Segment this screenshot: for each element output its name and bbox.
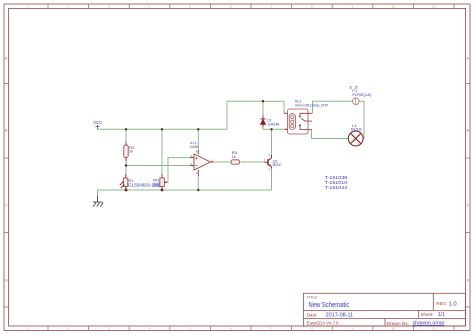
svg-text:1k: 1k bbox=[129, 150, 133, 154]
relay RL1 contact pins bbox=[299, 116, 301, 127]
svg-text:1k: 1k bbox=[232, 155, 236, 159]
wire R1 to ground rail bbox=[125, 188, 127, 191]
svg-text:New Schematic: New Schematic bbox=[309, 300, 350, 309]
wire Q1 emitter to ground rail bbox=[271, 168, 273, 191]
wire D1 anode to relay coil pin 2 bbox=[263, 125, 288, 129]
svg-text:EasyEDA V4.7.8: EasyEDA V4.7.8 bbox=[307, 320, 340, 325]
op-amp U1 input polarity marks bbox=[195, 157, 197, 165]
border column ticks bottom bbox=[48, 326, 454, 331]
svg-text:Sheet:: Sheet: bbox=[421, 312, 434, 317]
title block outline bbox=[303, 293, 465, 326]
svg-text:BC547: BC547 bbox=[273, 163, 282, 167]
wire VCC to R2 bbox=[125, 129, 127, 144]
junction ground/R1 bbox=[125, 189, 128, 192]
fuse F1 bbox=[353, 98, 360, 105]
border row ticks left bbox=[4, 84, 9, 308]
wire relay NO contact to bulb left bbox=[312, 130, 349, 139]
relay RL1 contact structure bbox=[300, 113, 312, 129]
svg-text:10: 10 bbox=[391, 327, 395, 331]
svg-text:PR1: PR1 bbox=[153, 178, 160, 182]
junction R2/R1/op-amp in- bbox=[125, 164, 127, 166]
svg-text:BULB: BULB bbox=[351, 127, 362, 132]
svg-text:FUSE(1A): FUSE(1A) bbox=[352, 93, 372, 97]
VCC net flag bbox=[95, 125, 99, 130]
wire VCC horizontal rail bbox=[98, 128, 228, 130]
potentiometer PR1 wiper arrowhead bbox=[165, 181, 167, 183]
photoresistor R1 bbox=[120, 174, 128, 190]
wire top rail to D1 cathode bbox=[262, 101, 264, 115]
value highlight blue blob bbox=[153, 183, 162, 188]
junction D1 anode/Q1 collector bbox=[270, 128, 272, 130]
junction ground/PR1 bbox=[161, 189, 164, 192]
photoresistor R1 arrowheads bbox=[122, 181, 125, 186]
junction ground/op-amp V- bbox=[197, 189, 199, 191]
wire PR1 wiper to op-amp non-inverting input bbox=[167, 158, 194, 183]
junction top rail/D1 bbox=[262, 100, 264, 102]
transistor Q1 pin numbers bbox=[264, 153, 271, 171]
wire ground rail bbox=[98, 190, 272, 202]
border row ticks right bbox=[466, 84, 471, 308]
svg-text:1.0: 1.0 bbox=[449, 301, 457, 307]
op-amp U1 pin stubs bbox=[191, 150, 214, 176]
border column ticks top bbox=[48, 4, 454, 9]
junction VCC/PR1 bbox=[161, 128, 163, 130]
svg-text:10: 10 bbox=[391, 5, 395, 9]
svg-text:11: 11 bbox=[432, 5, 435, 9]
wire VCC to op-amp V+ bbox=[197, 129, 199, 150]
wire R2 to R1 bbox=[125, 159, 127, 178]
svg-text:1/1: 1/1 bbox=[438, 312, 445, 318]
svg-text:TITLE:: TITLE: bbox=[307, 295, 319, 299]
svg-text:Omron-G5LE Relay_SPDT: Omron-G5LE Relay_SPDT bbox=[295, 102, 329, 107]
wire VCC rail riser and top rail bbox=[227, 101, 284, 129]
bulb L1 bbox=[348, 131, 363, 146]
wire collector node riser to Q1 bbox=[271, 129, 273, 155]
svg-text:1N4148: 1N4148 bbox=[267, 122, 280, 127]
wire fuse to bulb right bbox=[359, 101, 364, 138]
transistor Q1 bbox=[265, 155, 272, 169]
svg-text:2017-08-11: 2017-08-11 bbox=[326, 313, 354, 319]
diode D1 bbox=[260, 116, 265, 128]
potentiometer PR1 bbox=[160, 174, 167, 190]
wire PR1 bottom to ground rail bbox=[161, 188, 163, 191]
resistor R2 bbox=[124, 142, 128, 162]
svg-text:Date:: Date: bbox=[307, 312, 318, 317]
op-amp U1 bbox=[194, 154, 211, 170]
relay RL1 coil pin stubs bbox=[284, 113, 288, 129]
wire op-amp output to R3 bbox=[213, 161, 231, 163]
border row letters bbox=[5, 57, 470, 283]
wire top rail to relay coil pin 1 bbox=[283, 101, 285, 113]
svg-text:11: 11 bbox=[432, 327, 435, 331]
title block shawon.omar underline bbox=[413, 324, 445, 326]
wire relay common to fuse bbox=[313, 101, 353, 113]
relay RL1 body bbox=[288, 109, 309, 134]
svg-text:Drawn By:: Drawn By: bbox=[387, 321, 410, 326]
junction VCC/R2 bbox=[125, 128, 127, 130]
svg-text:LM358: LM358 bbox=[190, 144, 199, 149]
wire R3 to Q1 base bbox=[241, 161, 265, 163]
transistor Q1 emitter arrowhead bbox=[269, 164, 271, 166]
svg-text:VCC: VCC bbox=[93, 120, 102, 125]
ground symbol bbox=[93, 196, 103, 207]
svg-text:T-151044: T-151044 bbox=[325, 185, 348, 191]
wire divider node to op-amp inverting input bbox=[126, 165, 193, 167]
op-amp pin numbers bbox=[190, 150, 214, 176]
wire op-amp V- to ground rail bbox=[197, 176, 199, 190]
wire VCC to PR1 top bbox=[161, 129, 163, 177]
svg-text:REV:: REV: bbox=[436, 301, 447, 306]
resistor R3 bbox=[231, 160, 240, 164]
junction VCC/op-amp V+ bbox=[197, 128, 199, 130]
